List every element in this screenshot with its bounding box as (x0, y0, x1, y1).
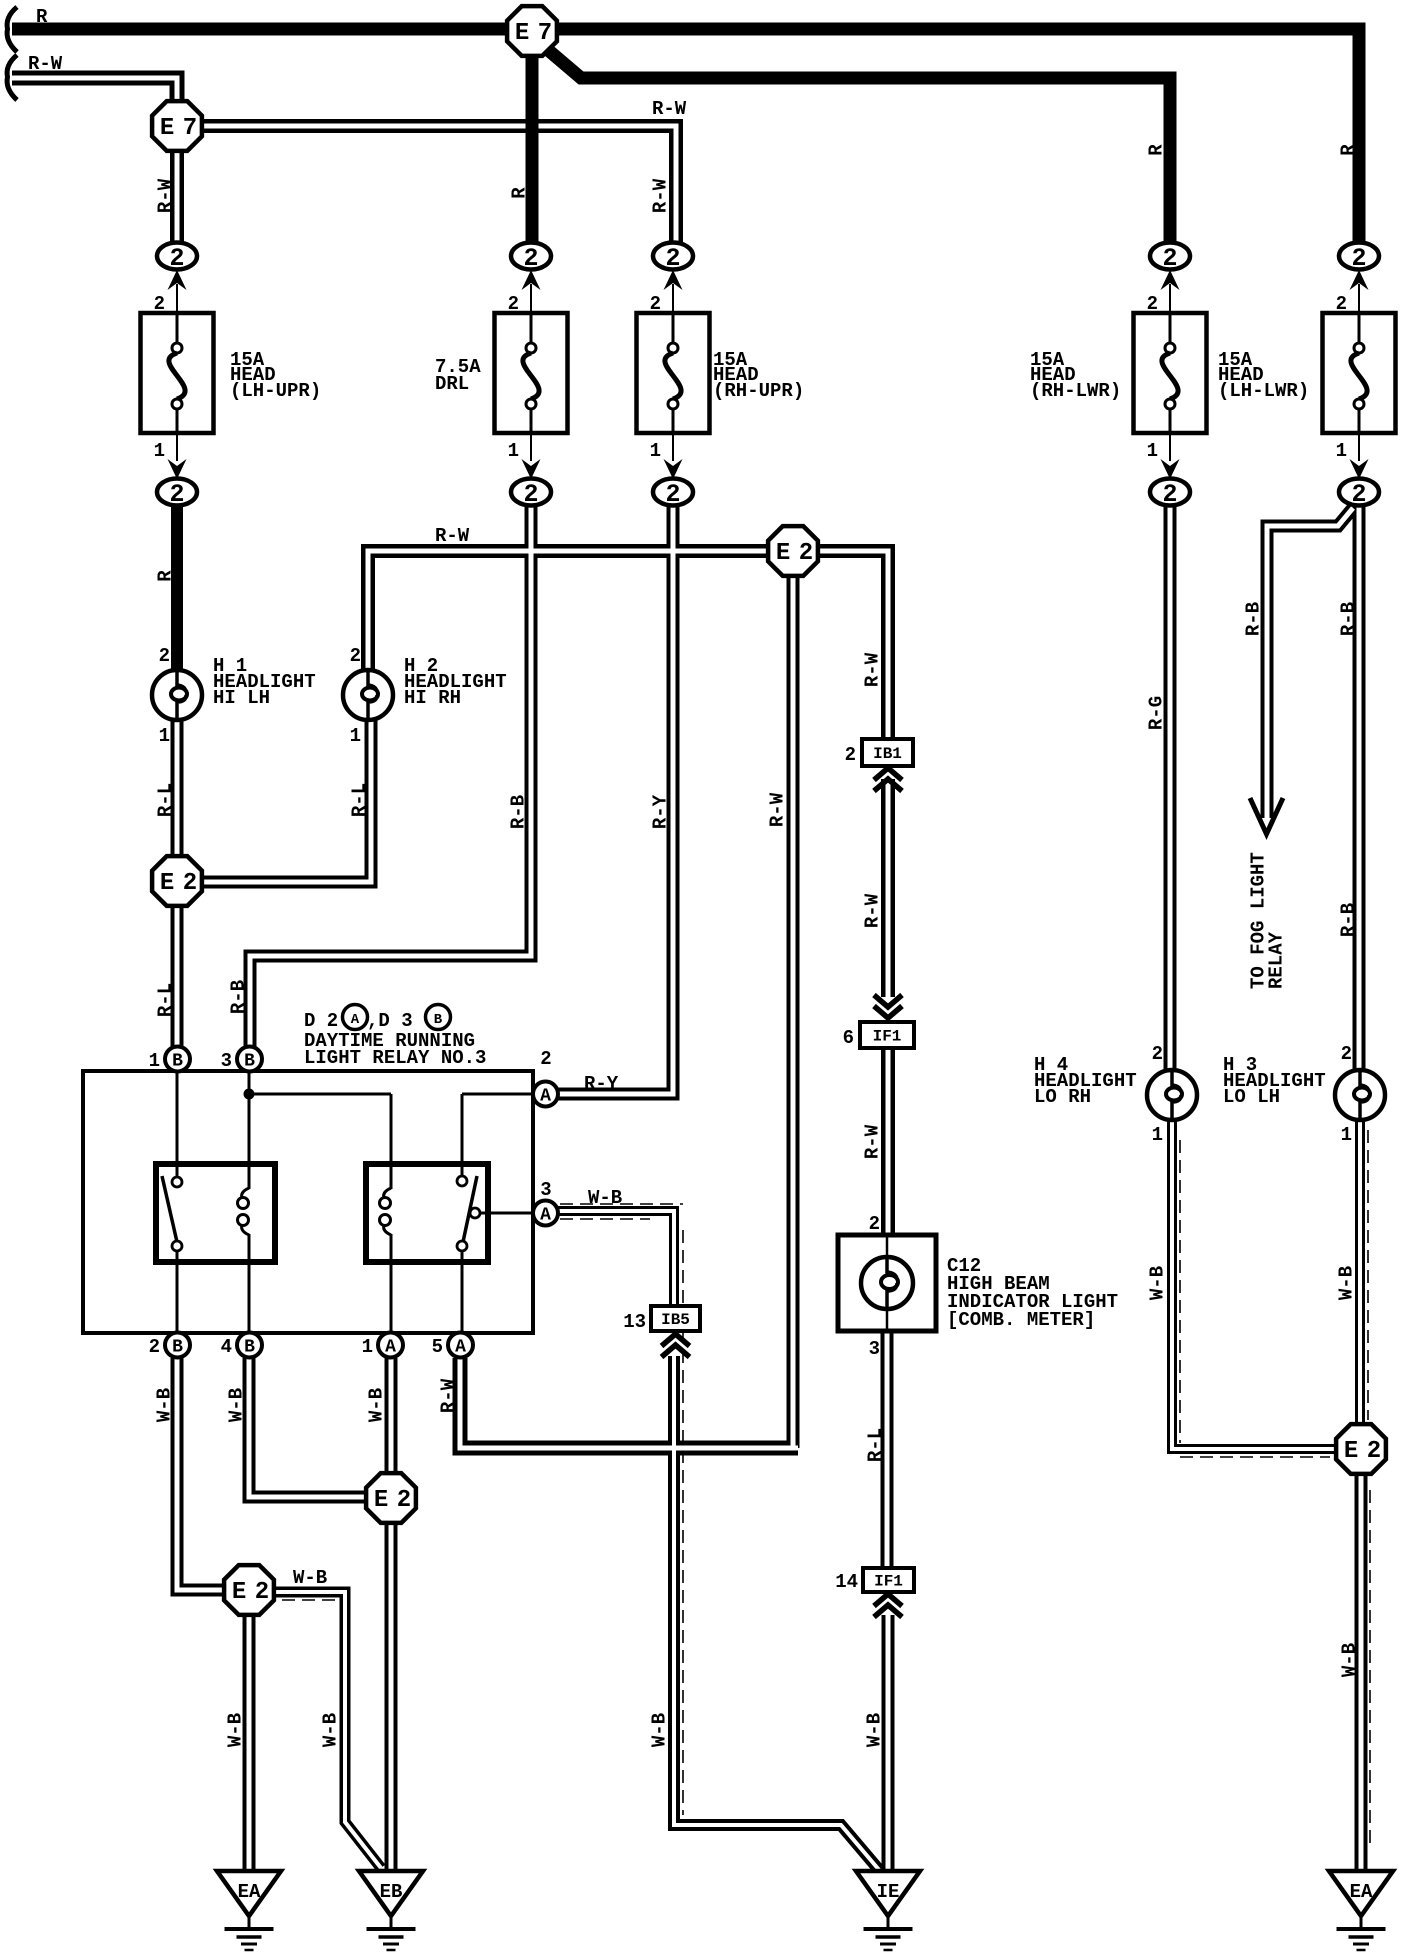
svg-text:W-B: W-B (225, 1713, 247, 1747)
svg-text:R-L: R-L (155, 783, 177, 817)
svg-text:B: B (172, 1338, 183, 1358)
svg-text:13: 13 (623, 1311, 646, 1333)
svg-text:1: 1 (508, 440, 519, 462)
svg-text:R-W: R-W (767, 792, 789, 827)
svg-text:3: 3 (221, 1050, 232, 1072)
svg-text:R-W: R-W (862, 652, 884, 687)
svg-text:6: 6 (843, 1027, 854, 1049)
svg-text:B: B (244, 1052, 255, 1072)
svg-text:R-B: R-B (1338, 903, 1360, 937)
svg-text:LO RH: LO RH (1034, 1086, 1091, 1108)
svg-text:3: 3 (540, 1179, 551, 1201)
svg-text:R-W: R-W (435, 525, 470, 547)
svg-text:EA: EA (1350, 1881, 1373, 1903)
svg-text:R-B: R-B (228, 980, 250, 1014)
svg-text:R: R (1146, 144, 1168, 156)
svg-text:W-B: W-B (864, 1713, 886, 1747)
svg-text:R: R (1338, 144, 1360, 156)
svg-text:HI LH: HI LH (213, 687, 270, 709)
svg-text:2: 2 (869, 1213, 880, 1235)
svg-text:R-Y: R-Y (584, 1073, 619, 1095)
svg-text:R-B: R-B (508, 795, 530, 829)
svg-text:(RH-UPR): (RH-UPR) (713, 380, 804, 402)
svg-text:2: 2 (169, 244, 184, 273)
svg-text:1: 1 (350, 725, 361, 747)
svg-text:R-B: R-B (1338, 602, 1360, 636)
svg-text:E 7: E 7 (515, 20, 551, 47)
svg-text:2: 2 (540, 1048, 551, 1070)
svg-text:R-B: R-B (1243, 602, 1265, 636)
svg-text:2: 2 (1341, 1043, 1352, 1065)
svg-text:R-W: R-W (650, 178, 672, 213)
svg-text:(LH-LWR): (LH-LWR) (1218, 380, 1309, 402)
svg-text:W-B: W-B (366, 1388, 388, 1422)
svg-text:1: 1 (650, 440, 661, 462)
svg-text:IB1: IB1 (873, 745, 902, 763)
svg-text:B: B (244, 1338, 255, 1358)
svg-text:EA: EA (238, 1881, 261, 1903)
svg-text:W-B: W-B (154, 1388, 176, 1422)
svg-text:B: B (172, 1052, 183, 1072)
svg-text:1: 1 (149, 1050, 160, 1072)
svg-text:2: 2 (523, 244, 538, 273)
svg-text:R-W: R-W (862, 893, 884, 928)
svg-text:2: 2 (1351, 244, 1366, 273)
svg-text:1: 1 (1147, 440, 1158, 462)
svg-text:2: 2 (1162, 244, 1177, 273)
svg-text:IF1: IF1 (874, 1573, 903, 1591)
svg-text:E 2: E 2 (1344, 1438, 1380, 1465)
svg-text:DRL: DRL (435, 373, 469, 395)
svg-text:,D 3: ,D 3 (367, 1010, 413, 1032)
svg-text:IF1: IF1 (873, 1028, 902, 1046)
svg-text:R-W: R-W (438, 1378, 460, 1413)
svg-text:R: R (155, 570, 177, 582)
svg-text:EB: EB (380, 1881, 403, 1903)
svg-text:1: 1 (159, 725, 170, 747)
svg-text:E 2: E 2 (232, 1579, 268, 1606)
svg-text:E 7: E 7 (160, 115, 196, 142)
svg-text:R: R (36, 6, 48, 28)
svg-text:2: 2 (665, 480, 680, 509)
svg-text:4: 4 (221, 1336, 232, 1358)
svg-text:A: A (351, 1012, 360, 1028)
svg-text:W-B: W-B (1336, 1266, 1358, 1300)
svg-text:D 2: D 2 (304, 1010, 338, 1032)
svg-text:2: 2 (523, 480, 538, 509)
svg-text:2: 2 (1147, 293, 1158, 315)
svg-text:IE: IE (877, 1881, 900, 1903)
svg-text:2: 2 (508, 293, 519, 315)
svg-text:2: 2 (154, 293, 165, 315)
svg-text:14: 14 (835, 1571, 858, 1593)
svg-text:LIGHT RELAY NO.3: LIGHT RELAY NO.3 (304, 1047, 486, 1069)
svg-text:1: 1 (362, 1336, 373, 1358)
svg-text:A: A (540, 1206, 551, 1226)
svg-text:R-L: R-L (865, 1428, 887, 1462)
svg-text:3: 3 (869, 1338, 880, 1360)
svg-text:R-L: R-L (349, 783, 371, 817)
svg-text:R-L: R-L (155, 983, 177, 1017)
svg-text:2: 2 (350, 645, 361, 667)
svg-text:W-B: W-B (226, 1388, 248, 1422)
svg-text:(RH-LWR): (RH-LWR) (1030, 380, 1121, 402)
svg-text:5: 5 (432, 1336, 443, 1358)
svg-text:E 2: E 2 (776, 540, 812, 567)
svg-text:R-W: R-W (155, 178, 177, 213)
svg-text:LO LH: LO LH (1223, 1086, 1280, 1108)
svg-text:1: 1 (1336, 440, 1347, 462)
svg-text:W-B: W-B (320, 1713, 342, 1747)
svg-text:HI RH: HI RH (404, 687, 461, 709)
svg-text:2: 2 (159, 645, 170, 667)
svg-text:2: 2 (665, 244, 680, 273)
svg-text:W-B: W-B (293, 1567, 327, 1589)
svg-text:A: A (385, 1338, 396, 1358)
svg-text:W-B: W-B (588, 1187, 622, 1209)
svg-text:B: B (434, 1012, 443, 1028)
svg-text:R-Y: R-Y (650, 794, 672, 829)
svg-text:W-B: W-B (1339, 1643, 1361, 1677)
svg-text:R-W: R-W (28, 53, 63, 75)
svg-text:2: 2 (1336, 293, 1347, 315)
svg-text:W-B: W-B (1147, 1266, 1169, 1300)
svg-text:IB5: IB5 (661, 1311, 690, 1329)
svg-text:2: 2 (149, 1336, 160, 1358)
svg-text:R: R (509, 187, 531, 199)
svg-text:A: A (540, 1087, 551, 1107)
svg-text:1: 1 (154, 440, 165, 462)
svg-text:2: 2 (169, 480, 184, 509)
svg-text:[COMB. METER]: [COMB. METER] (947, 1309, 1095, 1331)
svg-text:2: 2 (1152, 1043, 1163, 1065)
svg-text:R-W: R-W (652, 98, 687, 120)
svg-text:E 2: E 2 (374, 1487, 410, 1514)
svg-text:2: 2 (650, 293, 661, 315)
svg-text:R-G: R-G (1146, 696, 1168, 730)
svg-text:R-W: R-W (862, 1124, 884, 1159)
svg-text:RELAY: RELAY (1266, 931, 1288, 989)
svg-text:E 2: E 2 (160, 870, 196, 897)
svg-text:2: 2 (1162, 480, 1177, 509)
svg-text:(LH-UPR): (LH-UPR) (230, 380, 321, 402)
svg-text:2: 2 (845, 744, 856, 766)
svg-text:1: 1 (1152, 1124, 1163, 1146)
svg-text:2: 2 (1351, 480, 1366, 509)
svg-text:1: 1 (1341, 1124, 1352, 1146)
svg-text:A: A (455, 1338, 466, 1358)
svg-text:W-B: W-B (649, 1713, 671, 1747)
